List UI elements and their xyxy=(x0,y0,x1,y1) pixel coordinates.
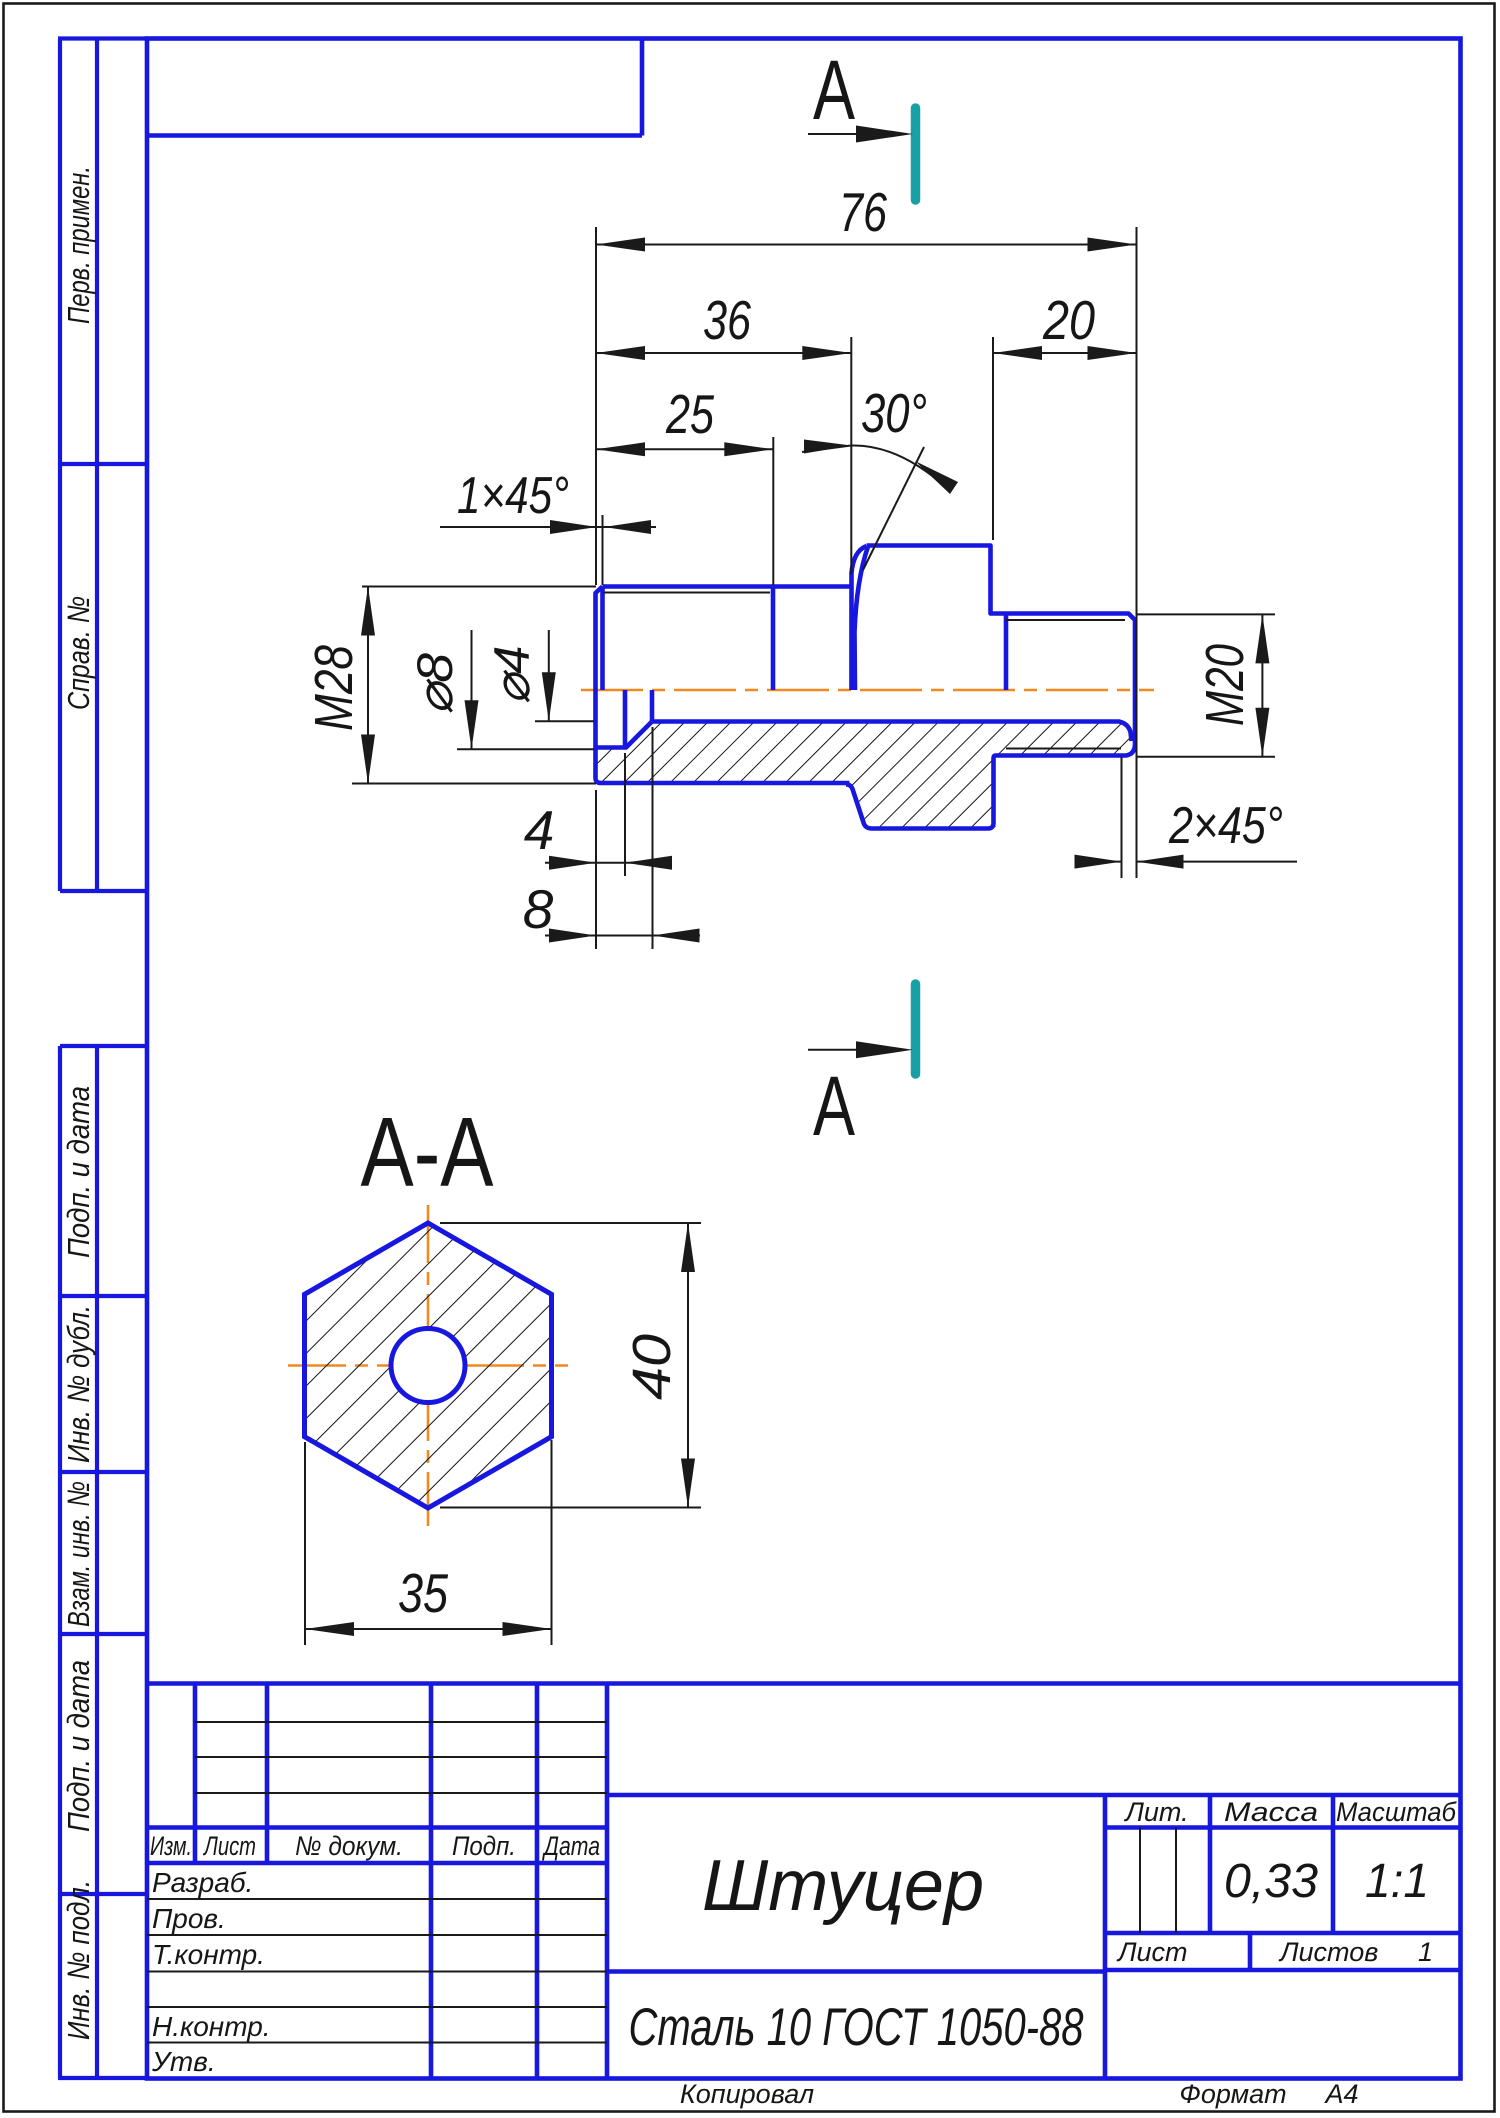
svg-text:Перв. примен.: Перв. примен. xyxy=(61,166,96,324)
svg-text:Подп. и дата: Подп. и дата xyxy=(61,1660,96,1832)
thread minor line M28 (thin) xyxy=(603,592,770,594)
svg-text:А: А xyxy=(813,1059,855,1153)
left margin attribute boxes xyxy=(58,39,147,2079)
hex centre hole xyxy=(391,1329,465,1403)
left margin label: Инв. № подл. xyxy=(61,1880,96,2040)
dimension 76 xyxy=(596,181,1137,252)
svg-text:Подп. и дата: Подп. и дата xyxy=(61,1086,96,1258)
dimension 40 xyxy=(622,1223,695,1508)
left margin label: Перв. примен. xyxy=(61,166,96,324)
svg-text:Т.контр.: Т.контр. xyxy=(152,1939,265,1970)
svg-text:№ докум.: № докум. xyxy=(295,1831,403,1861)
svg-text:4: 4 xyxy=(524,799,555,861)
svg-text:Дата: Дата xyxy=(542,1831,600,1861)
svg-text:36: 36 xyxy=(703,289,751,351)
hex section hatch xyxy=(305,1223,552,1508)
dimension 30 deg angle xyxy=(802,382,958,494)
svg-text:Инв. № дубл.: Инв. № дубл. xyxy=(61,1305,96,1463)
section label A-A xyxy=(361,1097,495,1207)
svg-text:Разраб.: Разраб. xyxy=(152,1867,253,1898)
svg-text:1:1: 1:1 xyxy=(1365,1855,1429,1908)
dimension 35 xyxy=(305,1562,552,1636)
svg-text:2×45°: 2×45° xyxy=(1168,797,1283,855)
dimension 8 xyxy=(523,878,700,943)
svg-text:30°: 30° xyxy=(861,382,927,444)
mass value xyxy=(1224,1855,1318,1908)
svg-text:Масса: Масса xyxy=(1224,1797,1318,1827)
left margin label: Взам. инв. № xyxy=(61,1481,96,1627)
material xyxy=(629,1998,1084,2057)
svg-text:Инв. № подл.: Инв. № подл. xyxy=(61,1880,96,2040)
dimension 36 xyxy=(596,289,851,360)
part outline: sectioned lower half xyxy=(596,690,1136,829)
svg-text:⌀8: ⌀8 xyxy=(407,653,463,715)
hex section centre lines (orange) xyxy=(288,1205,568,1526)
svg-text:Пров.: Пров. xyxy=(152,1903,226,1934)
svg-text:М28: М28 xyxy=(304,645,364,731)
dimension M28 xyxy=(304,587,375,784)
hex section outline xyxy=(305,1223,552,1508)
svg-text:35: 35 xyxy=(398,1562,448,1624)
title block outline xyxy=(147,1684,1461,2079)
centre axis line (orange dash-dot) xyxy=(581,689,1154,692)
left margin label: Подп. и дата (lower) xyxy=(61,1660,96,1832)
svg-text:Взам. инв. №: Взам. инв. № xyxy=(61,1481,96,1627)
left margin label: Подп. и дата (upper) xyxy=(61,1086,96,1258)
hex boss outline (top half) xyxy=(852,546,1136,691)
title block left labels xyxy=(151,1867,271,2077)
svg-text:А: А xyxy=(813,43,855,137)
svg-text:8: 8 xyxy=(523,878,554,940)
left margin label: Справ. № xyxy=(61,596,96,710)
section cut marker top xyxy=(808,43,916,200)
cone 30 deg construction line (thin) xyxy=(863,447,924,570)
svg-text:25: 25 xyxy=(665,383,714,445)
svg-text:Лист: Лист xyxy=(1116,1937,1188,1967)
svg-text:20: 20 xyxy=(1042,289,1095,351)
dimension 2x45 chamfer xyxy=(1075,797,1298,869)
dimension M20 xyxy=(1195,614,1269,756)
svg-text:Сталь 10 ГОСТ 1050-88: Сталь 10 ГОСТ 1050-88 xyxy=(629,1998,1084,2057)
dimension 25 xyxy=(596,383,773,456)
dimension dia 8 xyxy=(407,630,479,749)
svg-text:Изм.: Изм. xyxy=(150,1831,192,1861)
svg-text:1: 1 xyxy=(1418,1937,1433,1967)
svg-text:Лист: Лист xyxy=(203,1831,256,1861)
thread minor line M20 top (thin) xyxy=(1006,619,1125,621)
svg-text:⌀4: ⌀4 xyxy=(484,646,540,705)
title block right header labels xyxy=(1123,1797,1456,1827)
thread minor line M20 bottom (thin) xyxy=(1006,748,1121,750)
svg-text:40: 40 xyxy=(622,1334,682,1400)
svg-text:Утв.: Утв. xyxy=(151,2046,216,2077)
left margin label: Инв. № дубл. xyxy=(61,1305,96,1463)
title block header labels xyxy=(150,1831,600,1861)
svg-text:Справ. №: Справ. № xyxy=(61,596,96,710)
svg-text:Копировал: Копировал xyxy=(680,2079,814,2109)
svg-text:76: 76 xyxy=(839,181,887,243)
part name xyxy=(702,1846,984,1926)
dimension 4 xyxy=(524,799,672,870)
title block thin rows xyxy=(147,1722,1176,2043)
bottom margin labels xyxy=(680,2079,1359,2109)
svg-text:Штуцер: Штуцер xyxy=(702,1846,984,1926)
top-left reserve box xyxy=(147,39,642,136)
svg-text:Формат: Формат xyxy=(1179,2079,1286,2109)
dimension 1x45 chamfer xyxy=(440,467,656,534)
scale value xyxy=(1365,1855,1429,1908)
svg-text:Лит.: Лит. xyxy=(1123,1797,1188,1827)
extension lines (thin black) xyxy=(352,227,1275,949)
svg-text:Листов: Листов xyxy=(1278,1937,1378,1967)
part outline: left threaded end M28 (top half) xyxy=(596,587,852,784)
svg-text:1×45°: 1×45° xyxy=(457,467,569,525)
dimension dia 4 xyxy=(484,630,556,721)
svg-text:А4: А4 xyxy=(1323,2079,1358,2109)
svg-text:0,33: 0,33 xyxy=(1224,1855,1318,1908)
svg-text:Масштаб: Масштаб xyxy=(1336,1797,1457,1827)
section cut marker bottom xyxy=(808,984,916,1153)
svg-text:М20: М20 xyxy=(1195,644,1255,726)
hex extension lines xyxy=(305,1223,701,1645)
dimension 20 xyxy=(993,289,1137,360)
svg-text:А-А: А-А xyxy=(361,1097,495,1207)
svg-text:Н.контр.: Н.контр. xyxy=(152,2011,271,2042)
hatch region of main section (lower half) xyxy=(597,722,1132,827)
svg-text:Подп.: Подп. xyxy=(452,1831,516,1861)
sheet labels xyxy=(1116,1937,1433,1967)
